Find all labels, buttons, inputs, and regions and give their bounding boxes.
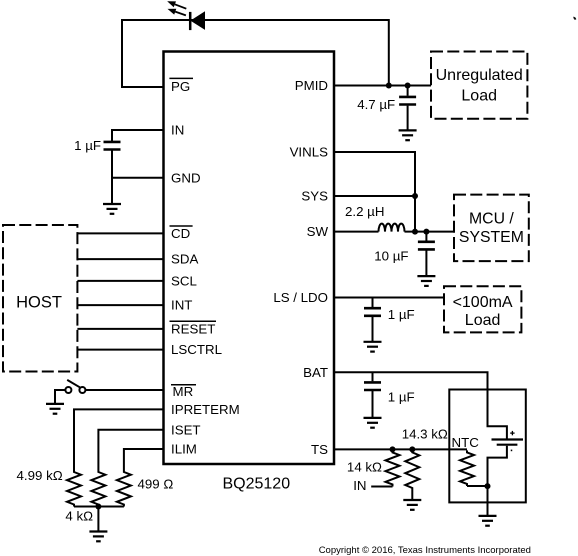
svg-text:GND: GND <box>171 170 201 185</box>
svg-text:INT: INT <box>171 298 192 313</box>
switch S1 lever <box>67 380 80 387</box>
wire LDO tap to C3 <box>372 298 374 308</box>
svg-text:TS: TS <box>311 442 328 457</box>
wire SW tap to C2 <box>425 232 427 241</box>
wire ISET to R2 <box>98 430 163 470</box>
battery BT1 negative plate <box>497 444 518 446</box>
wire HOST to LSCTRL <box>77 349 163 351</box>
LED D1 triangle <box>191 12 204 29</box>
wire inductor to MCU box <box>405 231 454 233</box>
svg-text:VINLS: VINLS <box>290 145 329 160</box>
svg-text:Copyright © 2016, Texas Instru: Copyright © 2016, Texas Instruments Inco… <box>319 545 531 556</box>
capacitor C1 4.7 uF <box>399 97 416 105</box>
svg-text:IN: IN <box>353 478 366 493</box>
switch S1 right contact <box>79 387 85 393</box>
junction PMID-C1 tap <box>405 83 411 89</box>
wire PG net: PG pin to top rail, top rail, down to PMID junction <box>122 20 389 87</box>
svg-text:SYSTEM: SYSTEM <box>459 229 524 246</box>
wire TS to NTC <box>334 448 467 450</box>
svg-text:NTC: NTC <box>452 435 480 450</box>
svg-text:MR: MR <box>173 384 194 399</box>
resistor R1 4.99 kOhm <box>67 470 81 507</box>
wire PMID to Unregulated Load <box>334 85 431 87</box>
svg-text:Unregulated: Unregulated <box>436 67 523 84</box>
wire BAT to battery <box>334 372 507 438</box>
capacitor C-in 1 uF <box>104 142 121 150</box>
wire C1 to ground <box>407 106 409 131</box>
wire R4 to IN stub <box>371 486 392 488</box>
wire VINLS down to SYS rail <box>334 152 415 232</box>
ground below switch <box>46 404 64 414</box>
battery minus sign <box>511 450 513 452</box>
svg-text:4.7 µF: 4.7 µF <box>357 97 395 112</box>
svg-text:PG: PG <box>171 79 190 94</box>
svg-text:MCU /: MCU / <box>469 211 514 228</box>
svg-text:ILIM: ILIM <box>171 442 197 457</box>
svg-text:4 kΩ: 4 kΩ <box>65 508 93 523</box>
svg-text:1 µF: 1 µF <box>388 307 415 322</box>
wire HOST to SCL <box>77 280 163 282</box>
wire HOST to SDA <box>77 258 163 260</box>
svg-text:14.3 kΩ: 14.3 kΩ <box>402 427 448 442</box>
wire GND pin <box>112 177 164 179</box>
svg-text:499 Ω: 499 Ω <box>138 477 174 492</box>
wire switch to MR pin <box>86 389 164 391</box>
svg-text:Load: Load <box>465 312 501 329</box>
wire HOST to INT <box>77 304 163 306</box>
svg-text:PMID: PMID <box>295 78 328 93</box>
svg-text:CD: CD <box>171 226 190 241</box>
svg-text:14 kΩ: 14 kΩ <box>347 459 382 474</box>
wire common to ground <box>97 507 99 532</box>
thermistor RT NTC <box>460 450 474 486</box>
svg-text:1 µF: 1 µF <box>74 138 101 153</box>
svg-text:SW: SW <box>307 224 329 239</box>
stray mark top-right corner <box>573 17 576 20</box>
ground below C-in <box>103 204 121 214</box>
wire IN pin to C-in <box>112 130 164 141</box>
resistor R3 499 Ohm <box>117 470 131 507</box>
ground below R5 <box>403 500 421 510</box>
resistor R2 4 kOhm <box>91 470 105 507</box>
wire R5 to ground <box>411 490 413 500</box>
svg-text:1 µF: 1 µF <box>388 389 415 404</box>
resistor R4 14 kOhm <box>386 450 400 486</box>
100mA Load dashed box <box>444 286 521 332</box>
capacitor C2 10 uF <box>418 242 435 250</box>
HOST dashed box <box>3 225 77 372</box>
resistor R5 14.3 kOhm <box>405 450 419 490</box>
svg-text:2.2 µH: 2.2 µH <box>345 204 384 219</box>
ground below resistors <box>89 532 107 542</box>
capacitor C4 1 uF (BAT) <box>364 382 381 390</box>
junction VINLS-SYS <box>412 193 418 199</box>
wire BAT tap to C4 <box>372 372 374 381</box>
battery BT1 positive plate <box>492 438 524 440</box>
svg-text:LSCTRL: LSCTRL <box>171 342 222 357</box>
junction TS-R5 <box>409 446 415 452</box>
MCU / SYSTEM dashed box <box>454 195 529 262</box>
battery plus sign <box>510 431 514 435</box>
LED D1 emission arrow upper <box>175 4 187 8</box>
junction SYS-SW rail <box>412 229 418 235</box>
ground below C1 <box>399 130 417 140</box>
svg-text:4.99 kΩ: 4.99 kΩ <box>17 468 63 483</box>
Unregulated Load dashed box <box>431 52 527 119</box>
LED D1 cathode bar <box>189 12 192 30</box>
wire HOST to RESET <box>77 328 163 330</box>
wire IPRETERM to R1 <box>74 409 164 470</box>
svg-text:RESET: RESET <box>171 322 215 337</box>
junction battery-NTC <box>485 483 491 489</box>
junction resistor common <box>95 504 101 510</box>
svg-text:HOST: HOST <box>16 293 62 311</box>
svg-text:SCL: SCL <box>171 274 197 289</box>
svg-text:BAT: BAT <box>303 365 328 380</box>
svg-text:10 µF: 10 µF <box>374 248 408 263</box>
svg-text:ISET: ISET <box>171 422 201 437</box>
ground below C3 <box>364 342 382 352</box>
ground below battery box <box>479 516 497 526</box>
wire SW pin to inductor <box>334 231 379 233</box>
capacitor C3 1 uF (LDO) <box>364 308 381 316</box>
svg-text:LS / LDO: LS / LDO <box>273 290 328 305</box>
junction PMID-LED rail <box>386 83 392 89</box>
wire C2 to ground <box>425 251 427 276</box>
wire LS/LDO to 100mA Load <box>334 297 444 299</box>
svg-text:<100mA: <100mA <box>453 294 513 311</box>
inductor L1 2.2 uH <box>379 224 405 232</box>
svg-text:SYS: SYS <box>301 189 328 204</box>
wire C4 to ground <box>372 391 374 418</box>
battery pack solid box <box>449 390 526 503</box>
svg-text:Load: Load <box>461 87 497 104</box>
LED D1 emission arrow lower <box>175 12 186 16</box>
svg-text:IN: IN <box>171 123 184 138</box>
ground below C4 <box>364 418 382 428</box>
junction TS-R4 <box>390 446 396 452</box>
wire battery negative to junction <box>488 446 507 516</box>
wire SYS pin <box>334 195 415 197</box>
svg-text:IPRETERM: IPRETERM <box>171 402 240 417</box>
svg-text:SDA: SDA <box>171 252 198 267</box>
wire ILIM to R3 <box>124 449 164 470</box>
wire C-in to GND pin rail <box>111 150 113 203</box>
wire resistor commons <box>74 506 124 508</box>
IC U1 BQ25120 body <box>164 52 335 465</box>
wire NTC to battery junction <box>467 485 488 487</box>
wire HOST to CD <box>77 232 163 234</box>
svg-text:BQ25120: BQ25120 <box>222 475 290 492</box>
switch S1 left contact <box>65 387 71 393</box>
ground below C2 <box>417 276 435 286</box>
wire switch to ground <box>55 390 65 404</box>
junction SW-C2 tap <box>423 229 429 235</box>
wire PMID tap to C1 <box>407 86 409 96</box>
wire C3 to ground <box>372 317 374 342</box>
